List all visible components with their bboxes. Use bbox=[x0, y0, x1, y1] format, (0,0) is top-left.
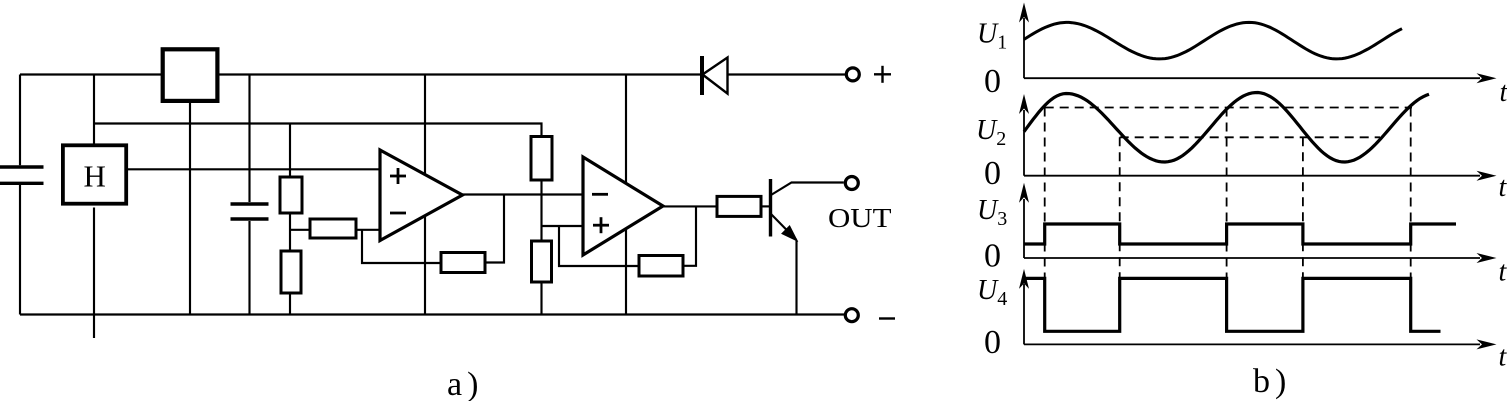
terminal minus bbox=[845, 309, 858, 322]
wire R8 to base bbox=[761, 205, 769, 207]
wire divider mid bbox=[540, 180, 542, 241]
wire H output to U1 noninverting input bbox=[128, 168, 380, 170]
wire U2 power rail bbox=[625, 75, 627, 315]
resistor R8 base bbox=[717, 196, 761, 216]
axis U2 bbox=[1024, 175, 1480, 177]
resistor R2 bbox=[281, 251, 301, 293]
dashed t1 bbox=[1044, 108, 1046, 279]
wire oscillator bottom pin bbox=[189, 103, 191, 315]
wire diode to plus terminal bbox=[728, 73, 846, 75]
wire emitter down bbox=[795, 240, 797, 315]
capacitor C1 bbox=[0, 167, 44, 183]
svg-text:t: t bbox=[1499, 172, 1507, 203]
dashed t5 bbox=[1410, 108, 1412, 279]
wire R3 to U1 inverting input bbox=[356, 229, 380, 231]
threshold dashed upper bbox=[1045, 107, 1412, 109]
wire U1 power rail bbox=[424, 75, 426, 315]
square wave U3 bbox=[1024, 224, 1456, 244]
svg-text:OUT: OUT bbox=[828, 203, 892, 233]
transistor Q1 bbox=[771, 179, 844, 241]
resistor R3 bbox=[310, 219, 356, 238]
wire R6 bottom bbox=[540, 282, 542, 315]
axis U1 bbox=[1024, 77, 1480, 79]
wire H bottom pin bbox=[93, 208, 95, 339]
dashed t3 bbox=[1226, 108, 1228, 279]
wire R4 to output node bbox=[485, 195, 504, 263]
svg-text:a): a) bbox=[447, 366, 483, 401]
op-amp U2 bbox=[583, 157, 663, 255]
wire U2 output to R8 bbox=[662, 205, 717, 207]
wire R1 top bbox=[289, 124, 291, 178]
dashed t4 bbox=[1302, 137, 1304, 278]
resistor R5 divider top bbox=[531, 137, 552, 181]
label plus bbox=[874, 66, 891, 83]
wire left vertical top bbox=[19, 75, 21, 166]
svg-text:0: 0 bbox=[984, 237, 1001, 274]
resistor R1 bbox=[280, 177, 302, 213]
oscillator block bbox=[163, 49, 218, 101]
resistor R4 feedback bbox=[441, 253, 485, 273]
wire bottom rail bbox=[20, 313, 845, 315]
Hall sensor H bbox=[63, 145, 126, 203]
label minus bbox=[879, 317, 895, 319]
wire node to R3 bbox=[290, 229, 310, 231]
wire left vertical bottom bbox=[19, 185, 21, 315]
wire feedback tap down bbox=[362, 230, 441, 263]
svg-text:t: t bbox=[1499, 342, 1507, 373]
svg-text:t: t bbox=[1500, 77, 1507, 108]
wire mid rail bbox=[94, 124, 542, 137]
wire H top pin bbox=[93, 75, 95, 144]
svg-text:0: 0 bbox=[984, 155, 1001, 192]
threshold dashed lower bbox=[1120, 136, 1380, 138]
terminal plus bbox=[846, 68, 859, 81]
wire divider to U2 noninverting input bbox=[542, 225, 584, 227]
wire positive feedback tap bbox=[559, 226, 639, 266]
terminal OUT bbox=[845, 177, 858, 190]
square wave U4 bbox=[1024, 278, 1441, 331]
wire R2 bottom bbox=[289, 293, 291, 315]
resistor R6 divider bottom bbox=[532, 241, 552, 282]
svg-text:0: 0 bbox=[984, 63, 1001, 100]
capacitor C2 bbox=[231, 204, 269, 219]
wire R7 to U2 output bbox=[683, 206, 696, 265]
wire U1 output to U2 bbox=[462, 193, 583, 195]
wire R1-R2 bbox=[289, 213, 291, 251]
wire top rail bbox=[20, 73, 702, 75]
curve U1 bbox=[1024, 22, 1402, 59]
resistor R7 feedback bbox=[639, 256, 683, 277]
svg-text:t: t bbox=[1499, 257, 1507, 288]
op-amp U1 bbox=[380, 150, 463, 241]
svg-text:0: 0 bbox=[984, 324, 1001, 361]
wire C2 top bbox=[248, 75, 250, 203]
arrowheads axes bbox=[1477, 73, 1497, 83]
waveform panel b bbox=[1024, 18, 1480, 344]
axis U3 bbox=[1024, 257, 1480, 259]
svg-text:b): b) bbox=[1253, 363, 1291, 400]
wire C2 bottom bbox=[248, 221, 250, 315]
dashed t2 bbox=[1119, 137, 1121, 278]
axis U4 bbox=[1024, 343, 1480, 345]
svg-text:H: H bbox=[84, 159, 106, 194]
curve U2 bbox=[1024, 93, 1429, 163]
diode VD bbox=[702, 56, 728, 95]
